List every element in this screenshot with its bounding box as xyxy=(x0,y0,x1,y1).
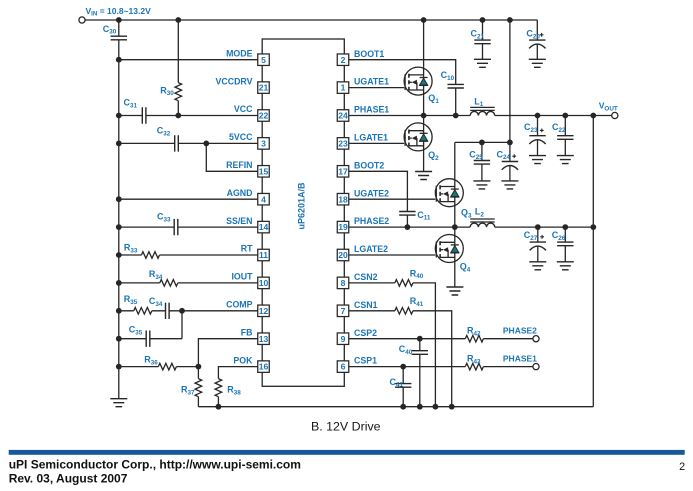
svg-text:13: 13 xyxy=(259,334,269,344)
wire: CSP2 row with R42 gap to PHASE2 terminal xyxy=(349,338,533,340)
svg-text:15: 15 xyxy=(259,166,269,176)
svg-text:9: 9 xyxy=(341,334,346,344)
svg-text:C34: C34 xyxy=(149,296,163,308)
VIN input terminal xyxy=(79,17,85,23)
junction at (419.8,406.7) xyxy=(417,404,423,410)
wire: LGATE1 to Q2 gate xyxy=(349,142,404,144)
resistor R41 xyxy=(395,308,413,315)
ground (C22) xyxy=(557,156,574,164)
junction at (118.8,199.2) xyxy=(116,196,122,202)
svg-text:UGATE2: UGATE2 xyxy=(354,188,389,198)
wire: VOUT right vertical xyxy=(592,116,594,407)
wire: C35 branch to COMP node xyxy=(119,311,182,339)
ground (C23) xyxy=(529,156,546,164)
svg-text:14: 14 xyxy=(259,222,269,232)
svg-text:R42: R42 xyxy=(467,326,481,338)
resistor R30 (vertical, VIN to VCC) xyxy=(175,83,182,101)
capacitor C32 (horizontal) xyxy=(175,135,179,151)
pin 21 VCCDRV (left) xyxy=(216,76,270,93)
svg-text:Q4: Q4 xyxy=(460,262,471,274)
pin 19 PHASE2 (right) xyxy=(337,216,389,233)
pin 4 AGND (left) xyxy=(227,188,270,205)
resistor R34 xyxy=(160,280,178,287)
wire: UGATE2 to Q3 gate xyxy=(349,198,436,200)
capacitor C41 xyxy=(395,384,411,388)
junction at (482.5,20) xyxy=(480,17,486,23)
svg-text:BOOT2: BOOT2 xyxy=(354,160,384,170)
capacitor C26 xyxy=(557,242,573,246)
svg-text:C24: C24 xyxy=(497,149,511,161)
wire: PHASE1 rail L1 to VOUT terminal xyxy=(495,115,612,117)
resistor R35 xyxy=(134,308,152,315)
svg-text:R33: R33 xyxy=(124,243,138,255)
capacitor C33 (horizontal) xyxy=(174,219,178,235)
ground (C27) xyxy=(529,262,546,270)
svg-text:R38: R38 xyxy=(227,385,241,397)
svg-text:POK: POK xyxy=(233,355,253,365)
transistor Q3 (high-side FET phase2) xyxy=(435,179,463,207)
junction at (565.3,227.1) xyxy=(562,224,568,230)
wire: PHASE2 rail L2 to VOUT vertical xyxy=(495,226,594,228)
junction at (593.3,115.5) xyxy=(590,113,596,119)
svg-text:L1: L1 xyxy=(474,96,484,108)
svg-text:1: 1 xyxy=(341,83,346,93)
VOUT output terminal xyxy=(612,112,618,118)
svg-text:2: 2 xyxy=(341,55,346,65)
pin 23 LGATE1 (right) xyxy=(337,133,388,150)
svg-text:B. 12V Drive: B. 12V Drive xyxy=(311,420,381,434)
junction at (423.6,20) xyxy=(421,17,427,23)
svg-text:R36: R36 xyxy=(144,355,158,367)
svg-text:CSP2: CSP2 xyxy=(354,328,377,338)
svg-text:C27: C27 xyxy=(524,230,538,242)
wire: C23 leads xyxy=(537,116,539,156)
ground (Q4 source) xyxy=(446,287,463,295)
svg-text:AGND: AGND xyxy=(227,188,253,198)
ground (C24) xyxy=(501,181,518,189)
junction at (198.4,366.6) xyxy=(196,364,202,370)
capacitor C10 xyxy=(448,84,464,88)
capacitor C34 (horizontal) xyxy=(166,303,170,319)
svg-text:11: 11 xyxy=(259,250,268,260)
wire: Q3-Q4 drain-source vertical xyxy=(454,142,456,287)
pin 13 FB (left) xyxy=(241,327,269,344)
svg-text:C32: C32 xyxy=(157,126,171,138)
pin 6 CSP1 (right) xyxy=(337,356,377,373)
svg-text:R37: R37 xyxy=(181,385,195,397)
wire: R30 leads from VIN to VCC xyxy=(177,20,179,116)
PHASE2 sense terminal xyxy=(533,336,539,342)
svg-text:IOUT: IOUT xyxy=(231,272,253,282)
svg-text:5VCC: 5VCC xyxy=(229,132,253,142)
resistor R37 (vertical) xyxy=(195,379,202,397)
pin 9 CSP2 (right) xyxy=(337,328,377,345)
svg-text:PHASE1: PHASE1 xyxy=(354,105,389,115)
pin 1 UGATE1 (right) xyxy=(337,77,389,94)
junction at (118.8,338.7) xyxy=(116,336,122,342)
junction at (435.4,406.7) xyxy=(433,404,439,410)
junction at (455.7,115.5) xyxy=(453,113,459,119)
wire: C27 leads xyxy=(537,227,539,262)
wire: VIN top rail xyxy=(82,19,537,21)
pin 24 PHASE1 (right) xyxy=(337,105,389,122)
op-amp-controller IC U1 uP6201A/B body xyxy=(262,39,344,386)
capacitor C35 (horizontal) xyxy=(146,331,150,347)
junction at (118.8,59.7) xyxy=(116,57,122,63)
wire: LGATE2 to Q4 gate xyxy=(349,254,436,256)
pin 7 CSN1 (right) xyxy=(337,300,377,317)
pin 17 BOOT2 (right) xyxy=(337,160,384,177)
svg-text:C33: C33 xyxy=(157,212,171,224)
svg-text:PHASE2: PHASE2 xyxy=(503,326,537,336)
svg-text:20: 20 xyxy=(338,250,348,260)
svg-text:24: 24 xyxy=(338,111,348,121)
wire: RT row with R33 gap xyxy=(119,254,258,256)
ground (C21) xyxy=(474,59,491,67)
wire: BOOT2 row and C11 leads xyxy=(349,171,408,227)
wire: C22 leads xyxy=(564,116,566,156)
svg-text:C25: C25 xyxy=(469,149,483,161)
inductor L2 xyxy=(470,219,495,227)
svg-text:Q3: Q3 xyxy=(461,207,472,219)
svg-text:L2: L2 xyxy=(475,207,485,219)
svg-text:VIN = 10.8~13.2V: VIN = 10.8~13.2V xyxy=(86,6,152,18)
svg-text:22: 22 xyxy=(259,111,269,121)
svg-text:BOOT1: BOOT1 xyxy=(354,49,384,59)
svg-text:C23: C23 xyxy=(524,122,538,134)
junction at (403.2,406.7) xyxy=(400,404,406,410)
svg-text:C11: C11 xyxy=(417,210,431,222)
junction at (454.8,227.1) xyxy=(452,224,458,230)
svg-text:UGATE1: UGATE1 xyxy=(354,77,389,87)
svg-text:Rev. 03, August 2007: Rev. 03, August 2007 xyxy=(9,471,128,485)
footer blue bar xyxy=(9,450,685,455)
svg-text:REFIN: REFIN xyxy=(226,160,252,170)
wire: R36 leads GND bus to FB node xyxy=(119,366,199,368)
svg-text:17: 17 xyxy=(338,166,348,176)
svg-text:C20: C20 xyxy=(526,29,540,41)
junction at (423.6,115.5) xyxy=(421,113,427,119)
svg-text:LGATE1: LGATE1 xyxy=(354,133,388,143)
wire: COMP row with R35 and C34 gaps xyxy=(119,310,258,312)
ground (left GND bus) xyxy=(110,399,127,407)
junction at (481.9,142.4) xyxy=(479,140,485,146)
svg-text:18: 18 xyxy=(338,194,348,204)
svg-text:Q1: Q1 xyxy=(428,93,439,105)
svg-text:C26: C26 xyxy=(552,230,566,242)
svg-text:LGATE2: LGATE2 xyxy=(354,244,388,254)
svg-text:CSN1: CSN1 xyxy=(354,300,378,310)
wire: C30 top lead xyxy=(118,20,120,36)
wire: C24 leads xyxy=(509,142,511,181)
ground (C26) xyxy=(557,262,574,270)
ground (Q2 source) xyxy=(415,172,432,180)
wire: C20 leads xyxy=(536,20,538,59)
pin 22 VCC (left) xyxy=(234,104,269,121)
svg-text:C22: C22 xyxy=(552,122,566,134)
svg-text:C40: C40 xyxy=(399,344,413,356)
capacitor C23 (polarized) xyxy=(529,129,545,145)
resistor R36 xyxy=(158,363,176,370)
svg-text:R43: R43 xyxy=(467,354,481,366)
svg-text:R35: R35 xyxy=(124,294,138,306)
wire: POK row and R38 vertical xyxy=(218,367,258,407)
pin 16 POK (left) xyxy=(233,355,269,372)
wire: PHASE2 rail to L2 xyxy=(349,226,470,228)
junction at (118.8,255) xyxy=(116,252,122,258)
resistor R33 xyxy=(141,252,159,259)
junction at (451.7,406.7) xyxy=(449,404,455,410)
capacitor C21 xyxy=(474,40,490,44)
junction at (118.8,282.9) xyxy=(116,280,122,286)
wire: VCC row with C31 gap xyxy=(119,115,258,117)
transistor Q4 (low-side FET phase2) xyxy=(435,235,463,263)
svg-text:2: 2 xyxy=(679,461,685,473)
capacitor C20 (polarized) xyxy=(529,33,545,49)
svg-text:C30: C30 xyxy=(103,24,117,36)
junction at (178.3,20) xyxy=(175,17,181,23)
svg-text:VCC: VCC xyxy=(234,104,253,114)
pin 20 LGATE2 (right) xyxy=(337,244,388,261)
svg-text:CSP1: CSP1 xyxy=(354,356,377,366)
pin 5 MODE (left) xyxy=(226,48,269,65)
svg-text:CSN2: CSN2 xyxy=(354,272,378,282)
capacitor C22 xyxy=(557,136,573,140)
capacitor C11 xyxy=(399,212,415,216)
svg-text:C35: C35 xyxy=(129,325,143,337)
wire: C21 leads xyxy=(482,20,484,59)
svg-text:C10: C10 xyxy=(441,70,455,82)
svg-text:FB: FB xyxy=(241,327,253,337)
svg-text:MODE: MODE xyxy=(226,48,253,58)
transistor Q1 (high-side FET phase1) xyxy=(404,67,432,95)
pin 3 5VCC (left) xyxy=(229,132,269,149)
svg-text:21: 21 xyxy=(259,83,269,93)
wire: VIN branch vertical to phase2 input xyxy=(509,20,511,142)
junction at (593.3,227.1) xyxy=(590,224,596,230)
junction at (565.3,115.5) xyxy=(562,113,568,119)
svg-text:VCCDRV: VCCDRV xyxy=(216,76,253,86)
ground (C25) xyxy=(473,181,490,189)
wire: AGND row xyxy=(119,198,258,200)
junction at (118.8,227.1) xyxy=(116,224,122,230)
junction at (178.3,115.5) xyxy=(175,113,181,119)
resistor R38 (vertical) xyxy=(215,379,222,397)
wire: Q2 drain-source vertical (PHASE1 to GND) xyxy=(423,116,425,172)
junction at (118.8,115.5) xyxy=(116,113,122,119)
svg-text:3: 3 xyxy=(261,139,266,149)
capacitor C24 (polarized) xyxy=(502,154,518,170)
junction at (118.8,20) xyxy=(116,17,122,23)
junction at (182,310.8) xyxy=(179,308,185,314)
svg-text:19: 19 xyxy=(338,222,348,232)
svg-text:23: 23 xyxy=(338,139,348,149)
junction at (403.2,366.6) xyxy=(400,364,406,370)
svg-text:10: 10 xyxy=(259,278,269,288)
capacitor C25 xyxy=(474,161,490,165)
svg-text:16: 16 xyxy=(259,362,269,372)
svg-text:Q2: Q2 xyxy=(428,150,439,162)
wire: CSN2 row with R40 gap and vertical xyxy=(349,283,436,407)
wire: FB row and divider vertical with R37 gap xyxy=(198,339,258,407)
svg-text:PHASE1: PHASE1 xyxy=(503,354,537,364)
wire: C40 leads xyxy=(419,339,421,407)
wire: PHASE1 rail to L1 xyxy=(349,115,470,117)
wire: CSP1 row with R43 gap to PHASE1 terminal xyxy=(349,366,533,368)
svg-text:5: 5 xyxy=(261,55,266,65)
resistor R40 xyxy=(395,280,413,287)
ground (C20) xyxy=(529,59,546,67)
pin 14 SS/EN (left) xyxy=(226,216,269,233)
wire: C25 leads xyxy=(481,142,483,181)
junction at (118.8,366.6) xyxy=(116,364,122,370)
wire: REFIN branch xyxy=(206,143,258,171)
junction at (206.3,143.4) xyxy=(203,141,209,147)
junction at (218.4,406.7) xyxy=(216,404,222,410)
pin 10 IOUT (left) xyxy=(231,272,269,289)
transistor Q2 (low-side FET phase1) xyxy=(404,123,432,151)
wire: VIN branch horizontal to Q3 drain xyxy=(455,141,510,143)
svg-text:R34: R34 xyxy=(149,269,163,281)
pin 11 RT (left) xyxy=(241,244,269,261)
pin 8 CSN2 (right) xyxy=(337,272,377,289)
svg-text:6: 6 xyxy=(341,362,346,372)
wire: SS/EN row with C33 gap xyxy=(119,226,258,228)
svg-text:uP6201A/B: uP6201A/B xyxy=(296,182,306,230)
svg-text:7: 7 xyxy=(341,306,346,316)
wire: IOUT row with R34 gap xyxy=(119,282,258,284)
svg-text:C41: C41 xyxy=(390,377,404,389)
wire: UGATE1 to Q1 gate xyxy=(349,87,404,89)
junction at (419.8,338.7) xyxy=(417,336,423,342)
capacitor C27 (polarized) xyxy=(530,235,546,251)
svg-text:PHASE2: PHASE2 xyxy=(354,216,389,226)
inductor L1 xyxy=(470,107,495,115)
svg-text:C31: C31 xyxy=(124,98,138,110)
svg-text:RT: RT xyxy=(241,244,253,254)
wire: Q1 drain-source vertical (VIN to PHASE1) xyxy=(423,20,425,116)
svg-text:COMP: COMP xyxy=(226,300,253,310)
PHASE1 sense terminal xyxy=(533,364,539,370)
wire: MODE row to GND bus xyxy=(119,59,258,61)
wire: GND left bus xyxy=(118,40,120,399)
capacitor C31 (horizontal) xyxy=(142,107,146,123)
resistor R42 xyxy=(465,335,483,342)
pin 18 UGATE2 (right) xyxy=(337,188,389,205)
junction at (118.8,310.8) xyxy=(116,308,122,314)
wire: 5VCC row with C32 gap xyxy=(119,142,258,144)
svg-text:R30: R30 xyxy=(160,85,174,97)
capacitor C40 xyxy=(412,351,428,355)
wire: bottom VOUT-sense rail xyxy=(198,406,593,408)
wire: C41 leads xyxy=(402,367,404,407)
svg-text:uPI Semiconductor Corp., http: uPI Semiconductor Corp., http://www.upi-… xyxy=(9,457,301,471)
junction at (118.8,143.4) xyxy=(116,141,122,147)
pin 15 REFIN (left) xyxy=(226,160,269,177)
capacitor C30 xyxy=(111,36,127,40)
junction at (407.4,227.1) xyxy=(405,224,411,230)
pin 2 BOOT1 (right) xyxy=(337,49,384,66)
wire: BOOT1 row and C10 leads xyxy=(349,60,456,116)
wire: C26 leads xyxy=(564,227,566,262)
svg-text:8: 8 xyxy=(341,278,346,288)
wire: CSN1 row with R41 gap and vertical xyxy=(349,311,452,407)
junction at (537.5,115.5) xyxy=(535,113,541,119)
svg-text:12: 12 xyxy=(259,306,269,316)
svg-text:SS/EN: SS/EN xyxy=(226,216,252,226)
pin 12 COMP (left) xyxy=(226,300,269,317)
svg-text:VOUT: VOUT xyxy=(599,100,618,112)
junction at (537.8,227.1) xyxy=(535,224,541,230)
svg-text:R41: R41 xyxy=(410,296,424,308)
svg-text:R40: R40 xyxy=(410,268,424,280)
junction at (509.9,20) xyxy=(507,17,513,23)
junction at (509.9,142.4) xyxy=(507,140,513,146)
svg-text:4: 4 xyxy=(261,194,266,204)
resistor R43 xyxy=(465,363,483,370)
